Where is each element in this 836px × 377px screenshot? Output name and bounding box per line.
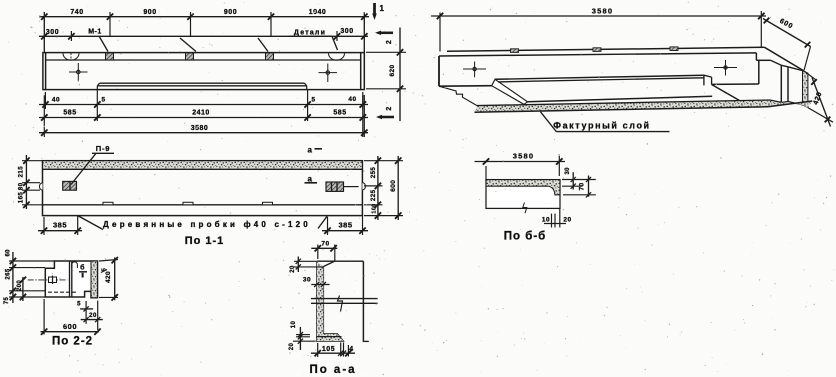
- section 2-2 plug symbol: [49, 277, 57, 283]
- axo strip wedge: [492, 79, 528, 104]
- svg-text:80: 80: [18, 182, 25, 190]
- axo top back edge: [447, 47, 765, 51]
- svg-text:3580: 3580: [592, 6, 614, 15]
- bracket slant right: [318, 216, 328, 229]
- label Fakturny sloy with leader: [541, 112, 557, 132]
- axo top front edge: [439, 53, 756, 56]
- section a-a dim 30: [311, 284, 329, 286]
- axo dim 3580: [431, 15, 766, 17]
- elevation cross mark left: [69, 63, 88, 82]
- svg-text:П-9: П-9: [96, 144, 110, 153]
- svg-text:165: 165: [18, 192, 25, 204]
- axo strip far edge inner: [498, 78, 704, 82]
- section 2-2 plug centerline: [28, 279, 68, 281]
- section b-b dim 70: [588, 176, 590, 197]
- dimension line 40-5-2410-5-40: [39, 104, 368, 106]
- svg-text:385: 385: [338, 221, 352, 230]
- section 2-2 hidden dashed line: [48, 291, 77, 293]
- section 2-2 dim 420: [114, 257, 116, 300]
- section 2-2 outline: [45, 261, 97, 298]
- svg-text:740: 740: [70, 9, 83, 16]
- plan dim 385 right: [322, 230, 368, 232]
- section b-b dims 10-20: [551, 214, 553, 228]
- svg-text:255: 255: [370, 167, 377, 179]
- section a-a flange inner line: [317, 336, 342, 338]
- axo strip near edge: [528, 96, 713, 102]
- dimension line 300-left and 300-right: [39, 35, 368, 37]
- axo dim 600: [763, 19, 811, 47]
- axo left receding bottom edge with notch: [439, 86, 477, 105]
- svg-text:2410: 2410: [192, 110, 210, 117]
- svg-text:20: 20: [563, 216, 571, 223]
- section marker 2 top: [379, 32, 393, 35]
- plan dim 385 left: [38, 230, 82, 232]
- axo strip right end: [703, 75, 705, 85]
- section marker 1 arrow: [373, 3, 376, 15]
- svg-text:585: 585: [333, 110, 346, 117]
- svg-text:Фактурный слой: Фактурный слой: [553, 121, 650, 131]
- axo front right edge: [758, 60, 760, 84]
- axo bottom facture band: [475, 100, 813, 112]
- section marker 2 bottom: [380, 116, 394, 119]
- axo end facture strip: [803, 71, 808, 108]
- elevation lifting-loop recess right: [329, 53, 345, 60]
- section 2-2 inner rib lines: [69, 261, 71, 297]
- plan notch right edge: [362, 183, 365, 191]
- svg-text:300: 300: [340, 28, 353, 35]
- plan right dim line 600: [397, 156, 399, 220]
- svg-text:5: 5: [101, 97, 105, 104]
- svg-text:600: 600: [390, 180, 397, 192]
- vertical dim line right of elevation: [399, 28, 401, 122]
- section b-b outline: [486, 180, 560, 209]
- svg-text:265: 265: [6, 268, 12, 279]
- svg-text:30: 30: [303, 276, 311, 283]
- svg-text:75: 75: [4, 297, 10, 305]
- axo dim 420: [812, 78, 831, 127]
- section a-a web and flange shape: [317, 261, 364, 341]
- svg-text:200: 200: [17, 280, 23, 291]
- axo detail rect 3: [670, 47, 678, 51]
- svg-text:1: 1: [380, 4, 385, 13]
- elevation recess strip: [100, 82, 305, 84]
- plan 1-1 outline: [43, 161, 363, 216]
- svg-text:1040: 1040: [309, 9, 327, 16]
- section a-a right edge: [362, 261, 364, 342]
- section 2-2 left dim line: [12, 252, 14, 303]
- plan right dim line 255-225-100: [377, 156, 379, 220]
- section a-a web stipple: [317, 261, 344, 341]
- svg-text:2: 2: [386, 40, 393, 44]
- axo right end columns: [780, 65, 782, 102]
- svg-text:40: 40: [52, 97, 60, 104]
- section 2-2 plug arch: [72, 262, 78, 268]
- plate P-9 right: [326, 182, 344, 191]
- svg-text:10: 10: [291, 321, 297, 329]
- plate P-9 left: [63, 181, 77, 190]
- section a-a dims 10-20 bottom: [299, 327, 301, 350]
- axo receding top right edge: [765, 47, 805, 71]
- svg-text:70: 70: [579, 182, 586, 190]
- svg-text:585: 585: [63, 110, 76, 117]
- embedded detail M-1 rect 3: [266, 53, 274, 60]
- svg-text:3580: 3580: [513, 152, 535, 161]
- svg-text:300: 300: [46, 29, 59, 36]
- svg-text:20: 20: [89, 313, 97, 319]
- section b-b break mark: [523, 203, 527, 214]
- svg-text:5: 5: [77, 302, 81, 308]
- axo detail rect 1: [511, 49, 519, 53]
- svg-text:a: a: [308, 146, 313, 155]
- svg-text:20: 20: [290, 265, 296, 273]
- svg-text:2: 2: [386, 106, 393, 110]
- svg-text:420: 420: [105, 271, 112, 283]
- axo front bottom edge left: [439, 85, 492, 88]
- svg-text:225: 225: [370, 189, 377, 201]
- plan plug bump 1: [103, 202, 113, 205]
- elevation cross mark right: [319, 64, 338, 83]
- svg-text:600: 600: [63, 322, 77, 331]
- axo right step: [755, 53, 757, 60]
- svg-text:40: 40: [348, 96, 356, 103]
- svg-text:4: 4: [349, 346, 353, 353]
- axo detail rect 2: [593, 48, 601, 52]
- svg-text:Деревянные пробки ф40 с-: Деревянные пробки ф40 с-120: [103, 220, 311, 229]
- svg-text:105: 105: [322, 346, 335, 353]
- svg-text:100: 100: [371, 203, 377, 213]
- axo front bottom edge right: [712, 83, 759, 85]
- section marker b lower: [82, 273, 84, 278]
- svg-text:385: 385: [53, 221, 67, 230]
- section 2-2 facture strip: [91, 261, 98, 298]
- svg-text:По б-б: По б-б: [504, 231, 547, 243]
- section b-b dim 30: [572, 172, 574, 189]
- section a-a dims 105-4: [311, 352, 355, 354]
- svg-text:3580: 3580: [191, 125, 209, 132]
- axo strip far edge: [495, 75, 704, 79]
- svg-text:70: 70: [321, 240, 329, 247]
- axo cross mark right: [714, 60, 737, 76]
- section 2-2 small dims 5-20: [85, 301, 87, 324]
- section a-a dim 20 top: [297, 257, 299, 273]
- dimension line 3580 elevation: [39, 132, 368, 134]
- svg-text:5: 5: [311, 97, 315, 104]
- axo strip end receding slant: [712, 85, 746, 105]
- svg-text:900: 900: [224, 9, 237, 16]
- svg-text:30: 30: [565, 167, 571, 175]
- svg-text:М-1: М-1: [88, 29, 102, 36]
- section 2-2 dim 600: [41, 331, 99, 333]
- svg-text:б: б: [80, 264, 85, 272]
- plan plug bump 2: [183, 202, 193, 205]
- svg-text:По а-а: По а-а: [309, 364, 356, 376]
- axo cross mark left: [463, 62, 486, 78]
- elevation lifting-loop recess left: [63, 53, 79, 60]
- svg-text:10: 10: [542, 217, 550, 224]
- bracket slant left: [78, 216, 103, 230]
- embedded detail M-1 rect 1: [106, 53, 114, 60]
- svg-text:Детали: Детали: [294, 30, 326, 37]
- section 2-2 inner dim 200: [22, 277, 24, 301]
- svg-text:620: 620: [389, 64, 396, 76]
- svg-text:900: 900: [143, 9, 156, 16]
- svg-text:215: 215: [18, 166, 25, 178]
- section a-a break lines: [311, 298, 378, 300]
- svg-text:По 1-1: По 1-1: [185, 235, 225, 247]
- dimension line 585-2410-585: [39, 117, 368, 119]
- svg-text:20: 20: [289, 343, 295, 351]
- embedded detail M-1 rect 2: [186, 53, 194, 60]
- svg-text:60: 60: [6, 249, 12, 257]
- svg-text:По 2-2: По 2-2: [52, 336, 93, 348]
- axo left end edge: [438, 56, 440, 86]
- plan notch left edge: [39, 183, 42, 191]
- plan inner line wooden plugs: [43, 204, 363, 206]
- section a-a dim 70: [311, 247, 337, 249]
- plan left dim line 215-80-165: [25, 155, 27, 209]
- plan plug bump 3: [263, 202, 273, 205]
- dimension line 740-900-900-1040: [39, 16, 369, 18]
- section b-b facture layer: [486, 180, 560, 195]
- section b-b dim 3580: [475, 161, 566, 163]
- plan facture layer band: [43, 161, 362, 169]
- panel elevation outline: [43, 53, 364, 90]
